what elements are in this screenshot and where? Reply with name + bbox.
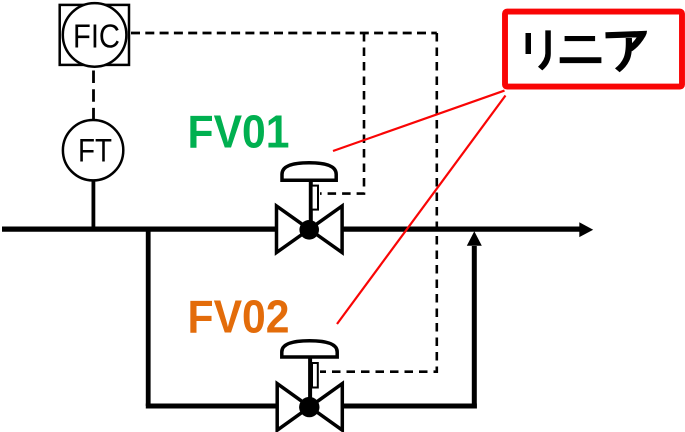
- glyph リ left stroke: [526, 33, 532, 54]
- glyph ニ top stroke: [565, 36, 596, 41]
- dashed signal FIC to FT: [92, 71, 95, 121]
- positioner FV01: [312, 186, 318, 210]
- glyph ア center stroke: [615, 38, 632, 72]
- bypass pipe bottom run: [146, 404, 477, 409]
- stem FV02: [308, 357, 312, 407]
- valve body FV01: [277, 206, 310, 253]
- valve body FV02: [277, 384, 310, 431]
- plug dot FV02: [299, 397, 319, 417]
- instrument FIC square: [60, 5, 129, 65]
- actuator dome FV02: [282, 341, 337, 357]
- glyph ア top stroke and right sweep: [605, 31, 647, 51]
- bypass pipe right riser: [467, 231, 482, 408]
- actuator dome FV01: [282, 163, 336, 181]
- svg-text:FV02: FV02: [188, 291, 290, 343]
- valve FV01: [277, 163, 343, 253]
- plug dot FV01: [299, 220, 319, 240]
- annotation text リニア (katakana, drawn as paths): [526, 30, 648, 72]
- svg-text:FV01: FV01: [188, 105, 290, 157]
- main pipe: [2, 222, 593, 237]
- glyph リ right stroke: [538, 30, 551, 70]
- dashed signal drop to FV02: [320, 33, 437, 372]
- instrument FT circle: [63, 120, 123, 180]
- valve FV02: [277, 341, 342, 430]
- dashed signal drop to FV01: [320, 33, 364, 194]
- bypass pipe left drop: [146, 229, 151, 406]
- svg-text:FIC: FIC: [73, 17, 120, 54]
- glyph ニ bottom stroke: [560, 57, 602, 63]
- wire FT to pipe: [92, 180, 96, 229]
- stem FV01: [309, 180, 313, 229]
- positioner FV02: [312, 363, 318, 388]
- dashed signal FIC to valves (horizontal): [131, 32, 437, 35]
- red callout leader line to FV02: [337, 96, 506, 325]
- red callout leader line to FV01: [333, 91, 505, 151]
- red callout box: [505, 12, 682, 87]
- instrument FIC circle: [63, 3, 127, 67]
- svg-text:FT: FT: [78, 133, 112, 169]
